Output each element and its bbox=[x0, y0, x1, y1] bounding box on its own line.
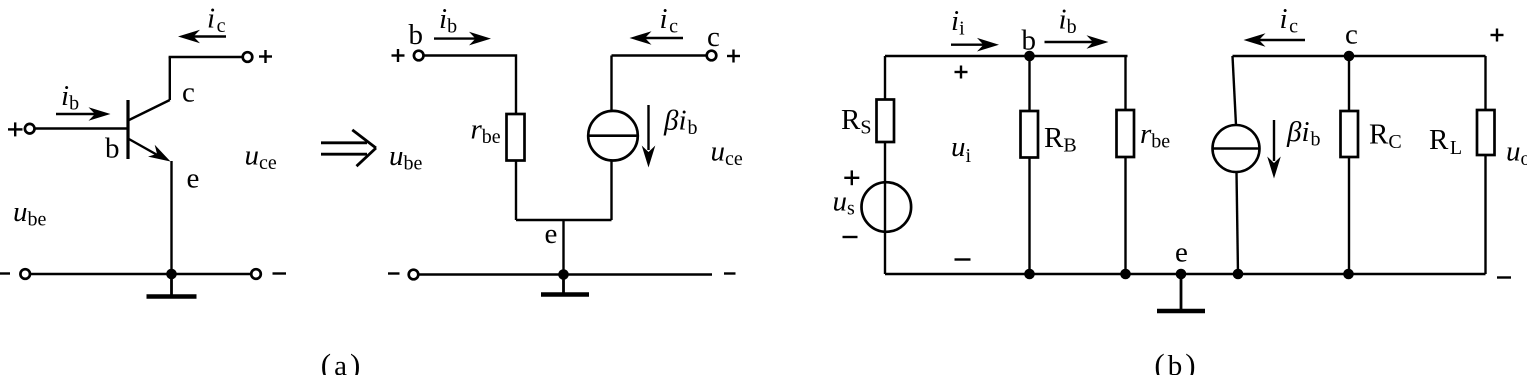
svg-text:b: b bbox=[105, 133, 120, 165]
wire top bbox=[424, 56, 516, 115]
bottom rail bbox=[30, 273, 252, 275]
minus sign bottom left bbox=[0, 272, 10, 274]
ground symbol bbox=[562, 275, 565, 293]
svg-text:c: c bbox=[182, 77, 195, 109]
left column top wire bbox=[884, 56, 886, 100]
wire base bbox=[34, 127, 128, 129]
wire to controlled source top bbox=[1233, 56, 1237, 125]
collector diagonal bbox=[127, 100, 170, 121]
junction dot emitter/rail bbox=[166, 269, 177, 280]
emitter diagonal with arrow bbox=[128, 139, 160, 157]
controlled current source beta*i_b circle bbox=[588, 111, 638, 161]
minus sign right bbox=[724, 272, 736, 274]
minus u_s bbox=[843, 236, 858, 238]
svg-text:e: e bbox=[1175, 237, 1188, 269]
arrow beta i_b bbox=[647, 105, 649, 150]
stub to rail bbox=[562, 220, 564, 275]
minus sign bottom right bbox=[273, 272, 287, 274]
minus u_i bbox=[955, 258, 971, 260]
R_C column wire top bbox=[1348, 56, 1350, 111]
controlled current source bar bbox=[1213, 147, 1260, 150]
svg-text:e: e bbox=[545, 218, 558, 250]
svg-text:c: c bbox=[1345, 19, 1358, 51]
junction dot source bbox=[1233, 269, 1244, 280]
R_C wire bottom bbox=[1348, 157, 1350, 274]
wire to controlled source top bbox=[610, 56, 612, 111]
junction dot bbox=[558, 269, 569, 280]
node dot b bbox=[1024, 51, 1035, 62]
arrow i_b bbox=[1045, 41, 1095, 43]
arrow i_i bbox=[951, 44, 985, 46]
svg-text:e: e bbox=[187, 163, 200, 195]
R_B wire bottom bbox=[1028, 158, 1030, 275]
bottom left terminal circle bbox=[20, 269, 30, 279]
collector top wire bbox=[169, 56, 244, 58]
node dot c bbox=[1344, 51, 1355, 62]
wire below r_be bbox=[515, 161, 517, 221]
ground symbol bbox=[170, 274, 173, 295]
svg-text:(a): (a) bbox=[321, 347, 361, 375]
controlled current source bar bbox=[590, 134, 637, 137]
junction dot R_C bbox=[1343, 269, 1354, 280]
svg-text:c: c bbox=[707, 21, 720, 53]
plus u_s bbox=[844, 170, 859, 185]
plus sign bbox=[392, 49, 405, 62]
arrow i_c bbox=[1258, 39, 1305, 41]
minus sign left bbox=[388, 272, 400, 274]
arrow beta i_b bbox=[1273, 120, 1275, 161]
plus sign at collector terminal bbox=[259, 50, 272, 63]
junction dot R_B bbox=[1024, 269, 1035, 280]
resistor r_be body bbox=[507, 114, 525, 161]
bottom right terminal circle bbox=[251, 269, 261, 279]
resistor R_S bbox=[877, 100, 895, 143]
terminal circle b bbox=[414, 51, 424, 61]
svg-text:b: b bbox=[409, 19, 424, 51]
resistor r_be body bbox=[1117, 110, 1135, 157]
terminal circle bottom bbox=[409, 270, 419, 280]
svg-text:(b): (b) bbox=[1154, 347, 1195, 375]
transistor Q1 base bar bbox=[126, 100, 129, 159]
wire to c terminal bbox=[612, 54, 708, 56]
arrow i_b bbox=[434, 37, 477, 39]
r_be column wire top bbox=[1124, 56, 1126, 110]
ground symbol bbox=[1180, 274, 1183, 309]
top rail right bbox=[1233, 55, 1486, 57]
wire from controlled source bottom bbox=[610, 161, 612, 220]
collector terminal circle bbox=[243, 52, 253, 62]
R_L column wire top bbox=[1484, 56, 1486, 110]
connector wire bbox=[516, 219, 612, 221]
R_L wire bottom bbox=[1484, 155, 1486, 274]
arrow i_c bbox=[192, 35, 226, 37]
terminal circle c bbox=[707, 51, 717, 61]
R_B column wire top bbox=[1028, 56, 1030, 111]
minus bottom right bbox=[1497, 276, 1511, 278]
wire from controlled source bottom bbox=[1237, 172, 1239, 274]
plus sign c bbox=[727, 50, 740, 63]
wire R_S to u_s and through to rail bbox=[884, 142, 886, 274]
arrow i_b bbox=[56, 113, 97, 115]
emitter vertical wire bbox=[170, 161, 172, 274]
top rail left bbox=[885, 55, 1128, 57]
plus sign at base terminal bbox=[8, 122, 23, 136]
plus top right bbox=[1491, 29, 1504, 42]
r_be wire bottom bbox=[1124, 157, 1126, 274]
resistor R_C bbox=[1341, 111, 1359, 157]
plus u_i bbox=[955, 66, 968, 79]
resistor R_B bbox=[1021, 111, 1039, 158]
arrow i_c bbox=[644, 37, 683, 39]
resistor R_L bbox=[1477, 110, 1495, 155]
junction dot e bbox=[1176, 269, 1187, 280]
collector vertical wire bbox=[169, 57, 171, 100]
bottom rail bbox=[418, 273, 712, 275]
controlled current source beta*i_b circle bbox=[1213, 125, 1260, 172]
base terminal circle bbox=[25, 124, 35, 134]
bottom rail bbox=[885, 273, 1486, 275]
junction dot r_be bbox=[1120, 269, 1131, 280]
source u_s circle bbox=[862, 182, 912, 232]
